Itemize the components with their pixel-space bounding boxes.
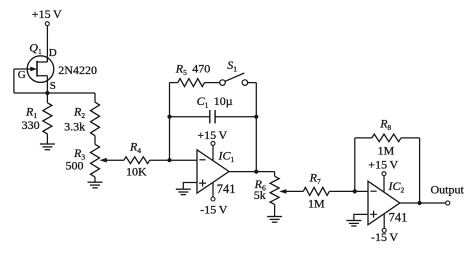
wire: R6 wiper to R7 — [286, 190, 304, 192]
svg-text:500: 500 — [66, 159, 84, 173]
-15V pin terminal (IC1) — [211, 197, 215, 201]
ground (IC2 + input) — [346, 221, 361, 227]
svg-text:+15 V: +15 V — [197, 128, 227, 142]
svg-text:S: S — [50, 80, 56, 92]
resistor R1 — [43, 93, 52, 144]
wire: IC2 noninverting input to ground — [354, 214, 368, 220]
+15V pin terminal (IC1) — [211, 141, 215, 145]
svg-text:R5 470: R5 470 — [175, 62, 211, 78]
+15V pin terminal (IC2) — [382, 172, 386, 176]
svg-text:5k: 5k — [254, 188, 266, 202]
svg-text:D: D — [49, 47, 57, 59]
resistor R4 — [124, 157, 150, 164]
ground (R1) — [40, 144, 55, 150]
svg-text:-15 V: -15 V — [200, 202, 227, 216]
svg-text:+15 V: +15 V — [32, 7, 62, 21]
svg-text:1M: 1M — [378, 143, 395, 157]
wire: top feedback branch left — [170, 82, 178, 84]
Output terminal — [446, 201, 450, 205]
resistor R7 — [303, 187, 329, 195]
ground (IC1 + input) — [176, 189, 191, 194]
svg-text:1M: 1M — [308, 196, 325, 210]
wire: switch to right feedback corner — [248, 82, 257, 84]
wire: IC1 output — [229, 171, 275, 173]
wire: IC2 output — [400, 202, 446, 204]
wire: rail corner into R2 — [94, 93, 96, 102]
wire: R2 to R3 — [94, 136, 96, 145]
wire: C1 branch right — [215, 116, 256, 118]
node: IC1 output junction — [254, 170, 258, 174]
wire: R3 to ground — [94, 177, 96, 182]
svg-text:741: 741 — [389, 211, 408, 225]
svg-text:Output: Output — [431, 182, 465, 196]
wire: R8 right leg — [419, 138, 421, 203]
op-amp IC1 — [197, 150, 229, 193]
resistor R3 (potentiometer) — [91, 144, 100, 177]
wire: +15V terminal to Q1 drain — [46, 26, 48, 62]
wire: gate to bottom rail — [13, 69, 15, 93]
-15V pin terminal (IC2) — [382, 228, 386, 232]
wire: R8 branch left — [355, 137, 372, 139]
ground (R6) — [267, 217, 282, 223]
+15V supply terminal — [45, 22, 49, 26]
wire: +15V pin stub (IC1) — [212, 146, 214, 161]
node: source junction — [45, 91, 49, 95]
resistor R8 — [372, 134, 401, 142]
wire: R6 to ground — [274, 204, 276, 216]
svg-text:-15 V: -15 V — [371, 230, 398, 244]
wire: R8 left leg — [354, 138, 356, 192]
wire: R8 branch right — [401, 137, 420, 139]
node: IC2 output junction — [418, 201, 422, 205]
transistor Q1 (2N4220 JFET) — [14, 56, 54, 83]
svg-text:741: 741 — [217, 182, 236, 196]
wire: bottom rail — [14, 92, 95, 94]
wire: C1 branch left — [170, 116, 210, 118]
svg-text:G: G — [18, 69, 26, 81]
node: C1 right junction — [254, 115, 258, 119]
wire: corner into R6 — [274, 172, 276, 177]
resistor R2 — [91, 102, 100, 136]
switch S1 — [220, 73, 248, 85]
node: C1 left junction — [167, 115, 171, 119]
wire: Q1 source down to node — [46, 82, 48, 93]
wire: +15V pin stub (IC2) — [383, 176, 385, 192]
wire: R5 to switch — [205, 82, 220, 84]
wiper arrow of R3 — [101, 158, 107, 162]
svg-text:10K: 10K — [126, 165, 147, 179]
resistor R5 — [178, 79, 205, 87]
wire: left feedback vertical — [169, 83, 171, 161]
svg-text:330: 330 — [22, 118, 40, 132]
wire: right feedback vertical — [255, 83, 257, 172]
resistor R6 (potentiometer) — [270, 176, 279, 204]
svg-text:2N4220: 2N4220 — [58, 63, 97, 77]
wire: wiper to R4 — [106, 159, 124, 161]
wire: R7 to IC2 inverting input — [329, 190, 368, 192]
svg-text:3.3k: 3.3k — [64, 120, 85, 134]
wiper arrow of R6 — [280, 190, 286, 194]
wire: R4 to IC1 inverting input — [150, 159, 197, 161]
ground (R3) — [88, 182, 103, 188]
wire: IC1 noninverting input to ground — [183, 183, 197, 190]
svg-text:+15 V: +15 V — [368, 158, 398, 172]
wire: -15V pin stub (IC1) — [212, 182, 214, 197]
node: IC2 inverting input junction — [353, 189, 357, 193]
node: IC1 inverting input junction — [167, 158, 171, 162]
op-amp IC2 — [368, 181, 400, 225]
svg-text:C1 10µ: C1 10µ — [197, 94, 233, 110]
wire: -15V pin stub (IC2) — [383, 214, 385, 228]
capacitor C1 — [210, 110, 215, 123]
